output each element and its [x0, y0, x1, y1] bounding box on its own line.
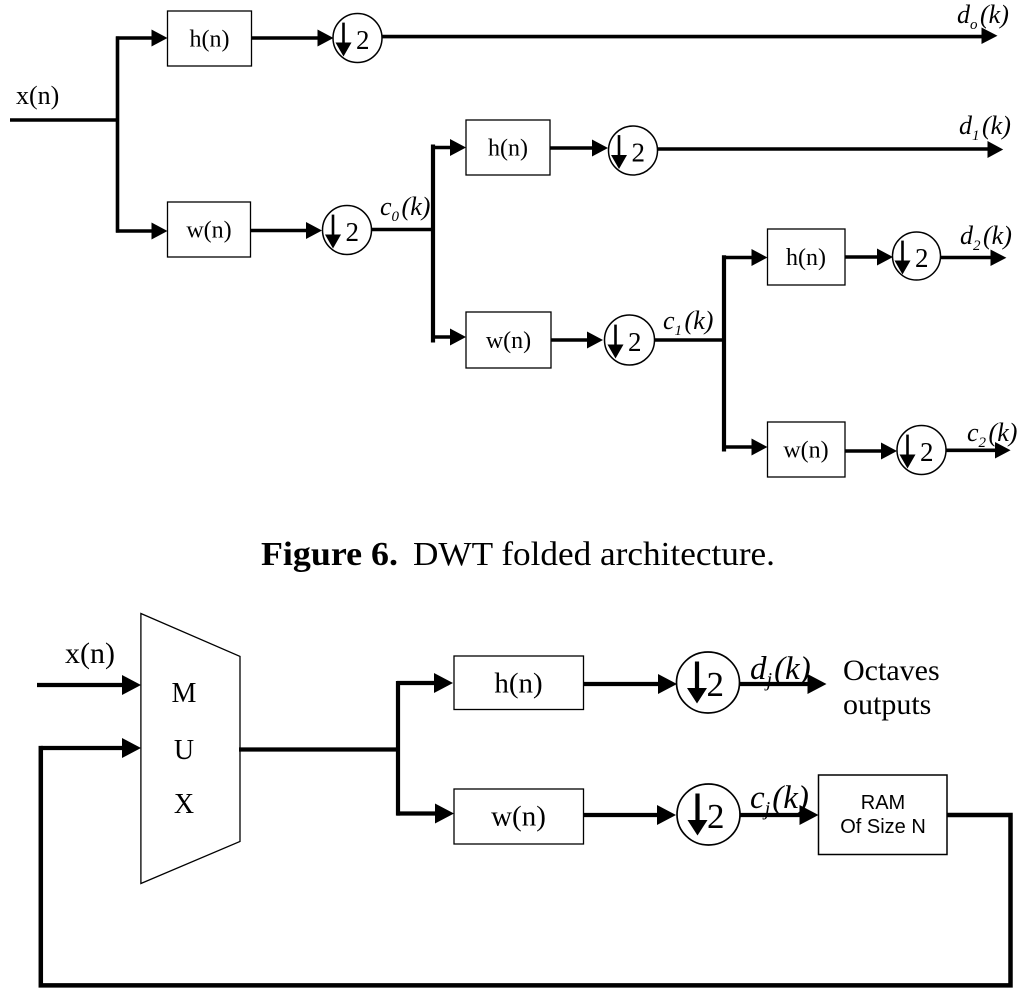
wire output d_2 arrow: [941, 250, 1007, 267]
downsampler 2 level0 high band: [333, 14, 382, 63]
svg-text:2: 2: [920, 437, 934, 467]
wire output c_2 arrow: [946, 442, 1011, 459]
downsampler 2 bottom low band: [677, 784, 740, 845]
svg-text:U: U: [174, 735, 194, 766]
filter box w(n) level2: [768, 422, 846, 477]
svg-text:cj(k): cj(k): [750, 780, 809, 820]
wire to w(n) level2 with arrowhead: [722, 439, 768, 456]
downsampler 2 level0 low band: [323, 206, 372, 255]
svg-text:2: 2: [707, 665, 725, 704]
wire x(n) into MUX with arrowhead: [37, 675, 141, 695]
svg-text:2: 2: [915, 243, 929, 273]
filter box w(n) level1: [466, 312, 551, 368]
wire branch to h(n) with arrowhead: [397, 673, 453, 693]
wire to h(n) level0 with arrowhead: [116, 30, 168, 47]
svg-text:2: 2: [628, 327, 642, 357]
wire to w(n) level1 with arrowhead: [432, 329, 467, 346]
memory box RAM Of Size N: [819, 775, 948, 855]
svg-text:w(n): w(n): [491, 801, 546, 833]
svg-text:Figure 6.: Figure 6.: [261, 536, 398, 573]
svg-text:c1(k): c1(k): [663, 306, 713, 339]
svg-text:d2(k): d2(k): [960, 221, 1012, 254]
wire feedback into MUX with arrowhead: [41, 738, 141, 758]
wire output d_o long arrow: [382, 28, 998, 45]
wire h(n) level1 to downsampler: [550, 140, 608, 157]
wire output branch vertical: [396, 681, 400, 816]
wire downsampler c1 to junction: [655, 338, 726, 342]
svg-text:outputs: outputs: [843, 688, 931, 721]
filter box h(n) level2: [768, 229, 846, 285]
svg-text:h(n): h(n): [190, 27, 230, 53]
svg-text:x(n): x(n): [65, 637, 115, 670]
svg-text:c2(k): c2(k): [967, 418, 1017, 451]
svg-text:h(n): h(n): [786, 245, 826, 271]
filter box w(n) bottom: [454, 789, 584, 844]
wire input branch vertical: [116, 36, 120, 232]
wire output c_j arrow into RAM: [740, 805, 819, 825]
wire feedback loop RAM to MUX: [41, 746, 1011, 986]
svg-text:h(n): h(n): [494, 668, 542, 700]
filter box h(n) bottom: [454, 656, 584, 710]
downsampler 2 bottom high band: [677, 652, 740, 713]
wire branch to w(n) with arrowhead: [397, 804, 454, 824]
wire w(n) to downsampler bottom: [584, 805, 677, 825]
svg-text:2: 2: [356, 25, 370, 55]
wire output d_j arrow: [740, 674, 827, 694]
downsampler 2 level2 low band: [897, 426, 946, 475]
wire h(n) level2 to downsampler: [845, 249, 893, 266]
svg-text:2: 2: [707, 797, 725, 836]
svg-text:h(n): h(n): [488, 136, 528, 162]
downsampler 2 level2 high band: [893, 232, 941, 280]
downsampler 2 level1 high band: [609, 126, 658, 175]
svg-text:do(k): do(k): [957, 0, 1009, 33]
svg-text:w(n): w(n): [783, 438, 828, 464]
svg-text:d1(k): d1(k): [959, 111, 1011, 144]
wire h(n) to downsampler bottom: [584, 674, 678, 694]
wire to w(n) level0 with arrowhead: [116, 223, 168, 240]
wire w(n) level1 to downsampler: [551, 332, 603, 349]
multiplexer MUX trapezoid: [141, 614, 240, 884]
svg-text:RAM: RAM: [861, 792, 905, 814]
wire output d_1 long arrow: [658, 141, 1004, 158]
svg-text:DWT folded architecture.: DWT folded architecture.: [413, 536, 775, 573]
downsampler 2 level1 low band: [605, 315, 655, 365]
svg-text:Octaves: Octaves: [843, 654, 940, 687]
wire junction c0 vertical: [431, 145, 435, 343]
wire to h(n) level2 with arrowhead: [722, 249, 768, 266]
wire x(n) input horizontal: [10, 118, 118, 122]
filter box h(n) level0: [168, 11, 252, 66]
wire MUX output horizontal: [239, 747, 400, 751]
svg-text:X: X: [174, 789, 194, 820]
wire w(n) level2 to downsampler: [845, 443, 897, 460]
filter box h(n) level1: [466, 120, 550, 175]
wire junction c1 vertical: [722, 255, 726, 451]
wire w(n) level0 to downsampler: [251, 222, 323, 239]
wire downsampler c0 to junction: [372, 228, 436, 232]
svg-text:x(n): x(n): [16, 81, 59, 110]
wire to h(n) level1 with arrowhead: [432, 139, 467, 156]
filter box w(n) level0: [168, 202, 251, 257]
svg-text:dj(k): dj(k): [750, 651, 811, 691]
wire h(n) level0 to downsampler: [252, 30, 334, 47]
svg-text:c0(k): c0(k): [380, 192, 430, 225]
svg-text:Of Size N: Of Size N: [840, 816, 926, 838]
svg-text:2: 2: [632, 138, 646, 168]
svg-text:w(n): w(n): [186, 218, 231, 244]
svg-text:M: M: [172, 678, 197, 709]
svg-text:w(n): w(n): [486, 328, 531, 354]
svg-text:2: 2: [346, 217, 360, 247]
